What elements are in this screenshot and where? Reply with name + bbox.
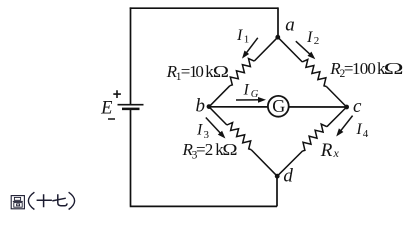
arrow I4 shaft [339,116,352,133]
svg-text:2: 2 [205,140,214,159]
battery E [108,90,144,119]
glyph seven [52,194,67,205]
svg-text:3: 3 [204,129,210,141]
svg-text:Ω: Ω [213,62,229,81]
arrowhead [218,131,226,139]
glyph tu (figure) outer box [11,196,24,209]
battery minus sign [108,118,115,120]
node b [207,104,212,109]
svg-text:1: 1 [244,33,250,45]
label R3 value [182,140,238,161]
wire R2 to node c [326,87,346,108]
wire stub from node d to bottom [276,176,278,206]
wire left upper (to battery + plate) [130,7,132,104]
svg-text:G: G [272,96,285,116]
svg-text:4: 4 [363,128,369,140]
glyph ten (10) [37,194,52,207]
arrowhead [258,97,266,103]
svg-text:E: E [100,98,112,118]
wire R1 to node b [209,86,230,107]
wire R3 to node d [251,150,277,177]
current arrow I4 [336,116,352,137]
caption close paren [69,192,75,209]
glyph tu inner dot [17,204,20,206]
current arrow I2 [296,41,316,59]
svg-text:0: 0 [367,59,376,78]
wire node a to R1 [254,37,278,61]
caption open paren [28,192,34,209]
svg-text:a: a [285,15,295,36]
label R2 value [329,59,403,80]
svg-text:R: R [320,140,333,161]
node c [344,105,349,110]
arrowhead [242,51,249,59]
battery long plate (+) [118,104,144,106]
node d [275,174,280,179]
svg-text:G: G [251,89,259,100]
resistor R2 zigzag [302,59,326,86]
svg-text:2: 2 [314,35,320,47]
bridge arms [209,37,347,176]
wire Rx to node d [277,151,302,176]
glyph tu inner bottom box [14,203,22,208]
svg-text:I: I [243,82,250,99]
arrow IG shaft [236,99,261,101]
svg-text:0: 0 [195,62,204,81]
wire left lower (from battery - plate) [130,109,132,206]
resistor R1 zigzag [230,59,254,86]
battery short plate (-) [122,108,140,111]
arrowhead [336,128,343,136]
wire node c to Rx [327,107,347,127]
arrowhead [308,52,316,60]
wire node a to R2 [278,37,302,62]
svg-text:I: I [355,121,362,138]
resistor Rx zigzag [303,124,327,151]
svg-text:b: b [196,95,206,116]
svg-text:I: I [306,29,313,46]
arrow I1 shaft [245,38,258,55]
svg-text:c: c [353,96,362,117]
arrow I3 shaft [206,118,222,136]
svg-text:x: x [333,146,340,160]
wire right drop to node a [277,7,279,37]
battery plus sign [113,90,121,98]
wire b-c (galvanometer branch) [209,106,347,108]
node a [275,35,280,40]
svg-text:d: d [283,165,293,186]
wire node b to R3 [209,107,227,125]
svg-text:I: I [236,27,243,44]
current arrow IG [236,97,266,103]
arrow I2 shaft [296,41,312,56]
current arrow I3 [206,118,226,139]
current arrow I1 [242,38,258,59]
glyph tu middle bar [13,200,23,202]
galvanometer G [268,96,289,117]
wire top [130,7,278,9]
label R1 value [166,62,230,83]
svg-text:I: I [196,122,203,139]
wire bottom [130,205,277,207]
svg-text:Ω: Ω [384,59,404,78]
resistor R3 zigzag [227,123,251,150]
glyph tu inner top box [14,197,20,200]
caption figure 17 [11,196,24,209]
svg-text:Ω: Ω [222,140,237,159]
